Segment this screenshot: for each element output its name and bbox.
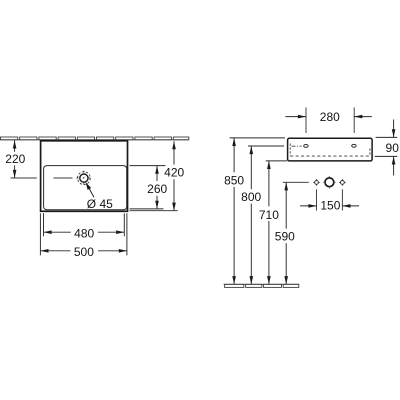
- dashed circle around tap hole: [78, 172, 91, 185]
- center line of tap hole: [54, 177, 73, 179]
- basin body (elevation): [288, 138, 373, 161]
- mounting hole right: [352, 144, 356, 147]
- wall hatch band (plan view): [0, 137, 189, 140]
- svg-text:710: 710: [259, 208, 279, 222]
- drain fitting small circle left: [315, 181, 319, 185]
- svg-text:800: 800: [241, 190, 261, 204]
- basin inner bowl rect: [44, 166, 127, 210]
- dimension 710: [266, 161, 287, 284]
- floor hatch band: [224, 284, 299, 287]
- dimension 260: [130, 166, 178, 211]
- svg-text:500: 500: [74, 245, 94, 259]
- svg-text:Ø 45: Ø 45: [87, 197, 113, 211]
- center tick marks of fitting circles: [313, 176, 346, 188]
- dimension 480: [44, 213, 125, 236]
- svg-text:420: 420: [164, 165, 184, 179]
- tap hole center cross: [76, 171, 91, 186]
- dimension 150: [300, 205, 359, 207]
- svg-text:220: 220: [5, 152, 25, 166]
- center line to left mounting hole: [292, 145, 302, 147]
- svg-text:280: 280: [320, 110, 340, 124]
- svg-text:90: 90: [386, 141, 400, 155]
- dimension 850: [230, 138, 285, 284]
- dimension 500: [40, 213, 127, 255]
- hidden bowl outline dashes (left): [289, 144, 291, 156]
- basin outer rect (plan): [41, 141, 128, 212]
- dimension 800: [248, 146, 284, 284]
- tap hole circle: [80, 174, 88, 182]
- dimension 420: [173, 141, 175, 211]
- svg-text:850: 850: [224, 174, 244, 188]
- dimension 590: [283, 182, 309, 284]
- dimension 280: [285, 116, 371, 118]
- dimension 220: [14, 140, 16, 178]
- svg-text:260: 260: [147, 182, 167, 196]
- hidden bowl outline dashes (right): [369, 149, 371, 156]
- svg-text:480: 480: [74, 226, 94, 240]
- hidden bowl outline dashes (bottom): [290, 155, 370, 157]
- mounting hole left: [304, 144, 308, 147]
- svg-text:150: 150: [320, 198, 340, 212]
- extension line for 220: [11, 177, 37, 179]
- drain fitting small circle right: [341, 181, 345, 185]
- dimension 150 extension lines: [317, 189, 343, 210]
- drain fitting big circle: [325, 178, 334, 187]
- leader line to tap hole: [86, 182, 92, 190]
- dimension 90: [375, 120, 398, 176]
- dimension 280 extension lines: [306, 108, 354, 134]
- svg-text:590: 590: [275, 230, 295, 244]
